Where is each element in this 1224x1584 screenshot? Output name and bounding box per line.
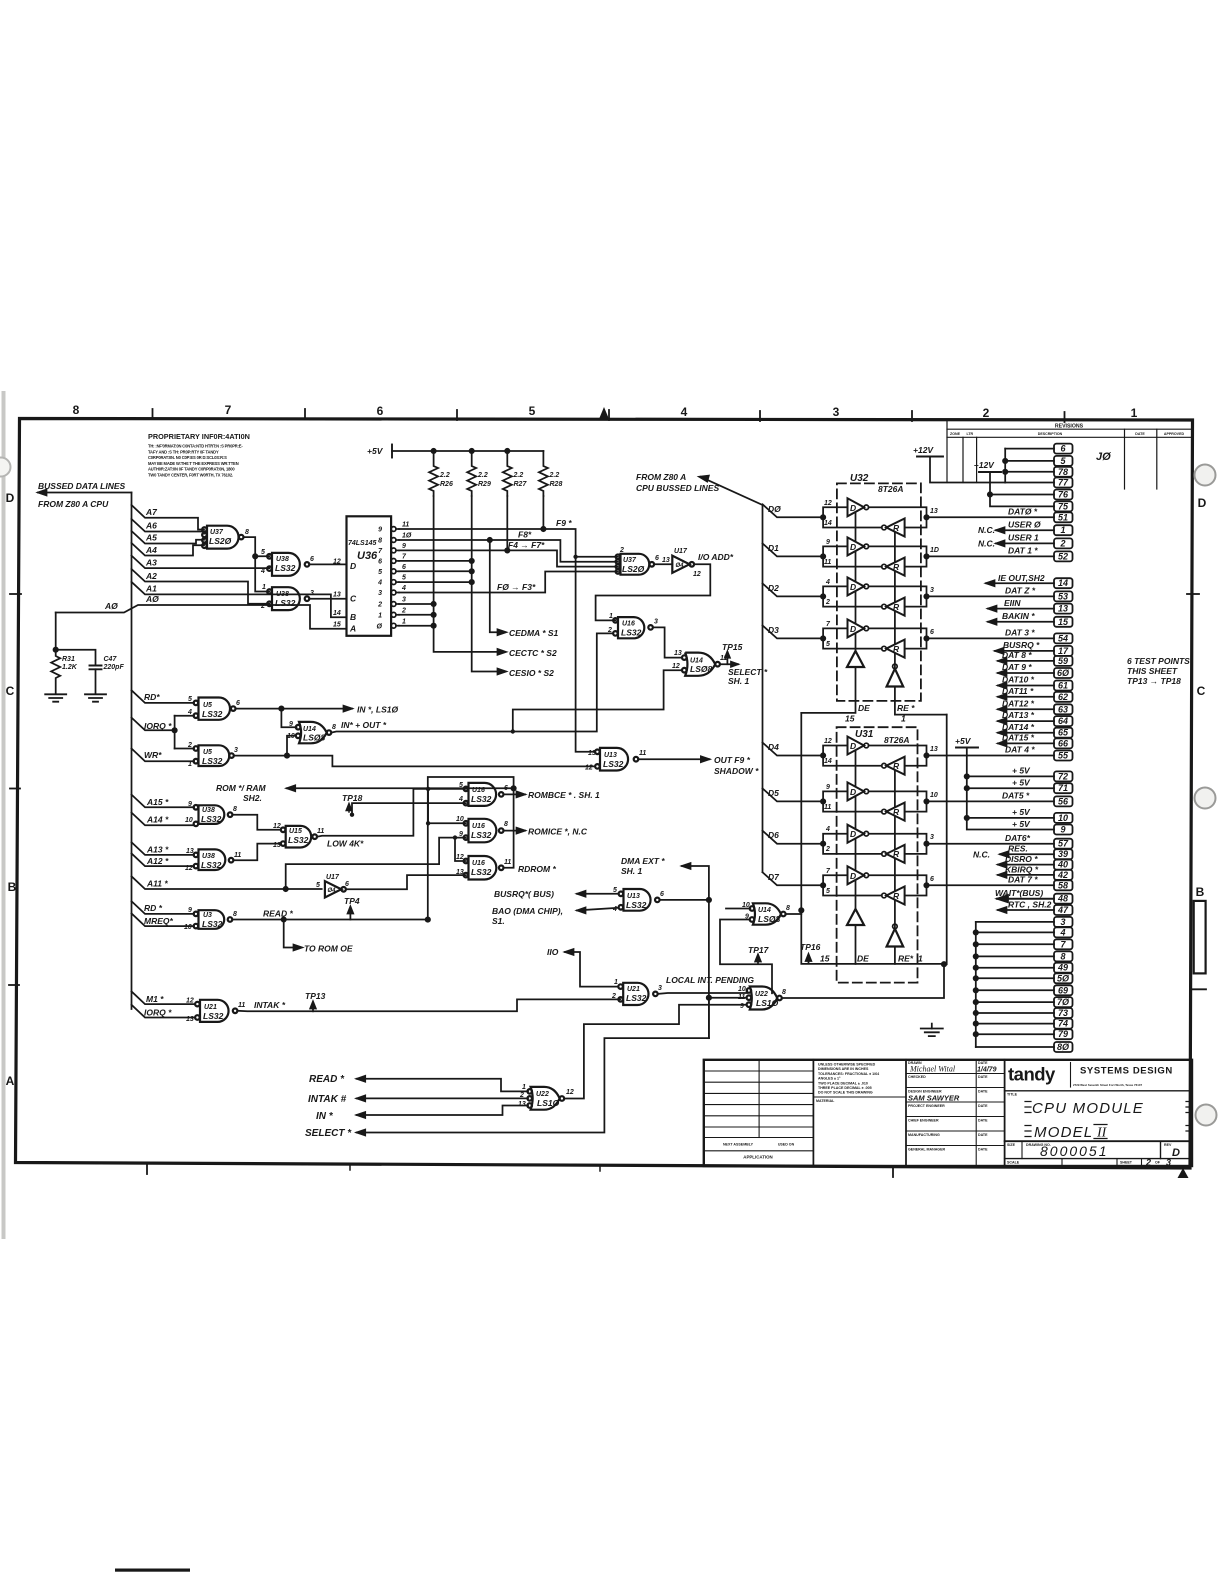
svg-text:FROM Z80 A: FROM Z80 A <box>636 472 686 482</box>
node read riser tap <box>426 787 430 791</box>
test point TP17 <box>720 920 772 994</box>
svg-text:6: 6 <box>655 555 659 562</box>
svg-text:OF: OF <box>1155 1161 1161 1165</box>
svg-text:1/4/79: 1/4/79 <box>977 1067 997 1074</box>
connector J0 pin 51 <box>1054 512 1073 522</box>
svg-text:ROMBCE * . SH. 1: ROMBCE * . SH. 1 <box>528 790 600 800</box>
svg-text:+5V: +5V <box>955 736 972 746</box>
svg-text:BUSRQ *: BUSRQ * <box>1003 640 1040 650</box>
connector J0 pin 58 <box>1054 880 1073 890</box>
node R26 taps <box>431 602 435 606</box>
gate U38d <box>199 849 226 870</box>
svg-text:9: 9 <box>826 784 830 791</box>
svg-text:DAT5 *: DAT5 * <box>1002 791 1030 801</box>
svg-text:7: 7 <box>225 403 232 417</box>
node A11 branch <box>284 887 288 891</box>
svg-text:LS32: LS32 <box>202 756 223 766</box>
svg-text:1: 1 <box>402 618 406 625</box>
resistor R28 <box>539 451 548 496</box>
wire RD <box>132 901 195 914</box>
svg-text:RES.: RES. <box>1008 844 1028 854</box>
svg-text:R: R <box>893 761 900 771</box>
svg-text:5: 5 <box>1060 456 1066 466</box>
wire U38d out to U15 pin13 <box>233 844 280 861</box>
svg-text:13: 13 <box>930 508 938 515</box>
node R27 tap <box>505 548 509 552</box>
gate U14b LS08 (IN+OUT) <box>296 722 332 743</box>
wire IN*,LS10 <box>236 706 353 728</box>
top zone tick 2/1 <box>1064 412 1066 422</box>
svg-text:U13: U13 <box>627 893 640 900</box>
svg-text:EIIN: EIIN <box>1004 598 1021 608</box>
parts list grid <box>704 1071 814 1151</box>
svg-text:2: 2 <box>611 993 616 1000</box>
svg-text:5: 5 <box>529 404 536 418</box>
connector J0 pin 6 <box>1054 444 1073 454</box>
svg-text:CEDMA * S1: CEDMA * S1 <box>509 628 559 638</box>
svg-text:3: 3 <box>930 587 934 594</box>
svg-text:62: 62 <box>1058 692 1068 702</box>
bottom tick 3 <box>599 1166 601 1172</box>
svg-text:57: 57 <box>1058 839 1069 849</box>
svg-text:6: 6 <box>236 700 240 707</box>
gate U14 or-shape <box>685 653 715 676</box>
svg-text:F9 *: F9 * <box>556 518 572 528</box>
svg-text:11: 11 <box>234 852 241 859</box>
svg-text:APPLICATION: APPLICATION <box>743 1155 772 1160</box>
svg-text:11: 11 <box>317 828 324 835</box>
svg-text:9: 9 <box>402 543 406 550</box>
svg-text:+ 5V: + 5V <box>1012 766 1031 776</box>
svg-text:SH. 1: SH. 1 <box>728 676 750 686</box>
svg-text:U5: U5 <box>203 702 212 709</box>
connector J0 pin 13 <box>1054 604 1073 614</box>
svg-text:2: 2 <box>187 742 192 749</box>
bottom center tick <box>146 1164 148 1175</box>
node rail R27 <box>505 449 509 453</box>
svg-text:C0RP0RAT:0N. N0 C0P:ES 0R D:SC: C0RP0RAT:0N. N0 C0P:ES 0R D:SCL0S:R:S <box>148 455 227 460</box>
svg-text:7: 7 <box>378 548 383 555</box>
svg-text:U5: U5 <box>203 749 212 756</box>
svg-text:63: 63 <box>1058 704 1068 714</box>
svg-text:73: 73 <box>1058 1008 1068 1018</box>
svg-text:U31: U31 <box>855 729 874 740</box>
svg-text:SYSTEMS DESIGN: SYSTEMS DESIGN <box>1080 1066 1173 1077</box>
svg-text:D: D <box>1172 1147 1180 1159</box>
svg-text:1: 1 <box>188 761 192 768</box>
svg-text:5: 5 <box>378 569 382 576</box>
svg-text:9: 9 <box>378 527 382 534</box>
right hole punch bottom <box>1196 1105 1217 1126</box>
svg-text:+ 5V: + 5V <box>1012 819 1031 829</box>
svg-text:–12V: –12V <box>974 460 995 470</box>
wire EIIN <box>988 608 1054 610</box>
svg-text:12: 12 <box>672 663 680 670</box>
wire U14c out to DE column <box>726 909 801 915</box>
svg-text:3: 3 <box>234 747 238 754</box>
test point TP18 <box>346 804 352 813</box>
svg-text:9: 9 <box>289 721 293 728</box>
svg-text:1: 1 <box>614 979 618 986</box>
wire DAT10 <box>998 685 1054 687</box>
svg-text:B: B <box>350 612 356 622</box>
svg-text:IORQ *: IORQ * <box>144 721 172 731</box>
RE line U31 <box>894 763 896 964</box>
wire U37b to U17 <box>654 563 672 565</box>
svg-text:SIZE: SIZE <box>1007 1143 1016 1147</box>
svg-text:10: 10 <box>738 986 746 993</box>
svg-text:LS32: LS32 <box>471 794 492 804</box>
scan left edge shadow <box>2 393 6 1237</box>
svg-text:14: 14 <box>824 520 832 527</box>
gate U16c <box>469 856 497 880</box>
svg-text:D3: D3 <box>768 625 779 635</box>
wire BUSRQ arrow <box>577 891 618 897</box>
svg-text:6: 6 <box>504 785 508 792</box>
svg-text:7: 7 <box>402 554 407 561</box>
svg-text:READ *: READ * <box>309 1074 345 1085</box>
DE enable triangle U32 <box>847 651 864 667</box>
svg-text:TH: :NF'0RMAT:0N C0NTA:NTD HTR: TH: :NF'0RMAT:0N C0NTA:NTD HTRT:N :S PR0… <box>148 444 243 449</box>
gate U37 <box>207 526 239 549</box>
svg-text:11: 11 <box>504 859 511 866</box>
inverter U17 buffer <box>672 556 689 573</box>
svg-text:4: 4 <box>1059 927 1065 937</box>
svg-text:LS32: LS32 <box>626 993 647 1003</box>
power +5V bar <box>391 445 393 458</box>
svg-text:D: D <box>850 542 856 552</box>
gate U15 <box>286 826 312 848</box>
svg-text:4: 4 <box>825 579 830 586</box>
connector J0 pin 70 <box>1054 997 1073 1007</box>
capacitor C47 <box>90 666 102 670</box>
svg-text:DAT 8 *: DAT 8 * <box>1002 650 1032 660</box>
svg-text:TOLERANCES: FRACTIONAL ± 1/64: TOLERANCES: FRACTIONAL ± 1/64 <box>818 1072 879 1076</box>
wire U22a out to RE column <box>782 962 946 998</box>
wire OUT F9 shadow arrow <box>638 756 709 762</box>
wire A7 <box>132 505 205 530</box>
svg-text:DE: DE <box>858 703 870 713</box>
svg-text:USER Ø: USER Ø <box>1008 520 1041 530</box>
wire M1 <box>132 991 195 1004</box>
svg-text:INTAK *: INTAK * <box>254 1000 286 1010</box>
svg-text:76: 76 <box>1058 490 1069 500</box>
wire riser to pin10 <box>428 789 466 823</box>
wire U36 row 5 <box>399 581 472 583</box>
svg-text:77: 77 <box>1058 478 1069 488</box>
wire bussed data lines arrow <box>38 492 132 494</box>
wire U36 row 6 <box>399 570 472 572</box>
svg-text:3: 3 <box>310 590 314 597</box>
svg-text:2: 2 <box>1145 1158 1151 1168</box>
svg-text:U15: U15 <box>289 828 302 835</box>
svg-text:LS32: LS32 <box>275 563 296 573</box>
svg-text:3: 3 <box>378 590 382 597</box>
wire ROMBCE arrow <box>504 792 526 798</box>
node rail R29 <box>470 449 474 453</box>
svg-text:2: 2 <box>619 547 624 554</box>
svg-text:5Ø: 5Ø <box>1057 973 1070 983</box>
connector J0 pin 42 <box>1054 870 1073 880</box>
svg-text:R: R <box>893 523 900 533</box>
dashed box U31 <box>837 727 918 982</box>
svg-text:LS32: LS32 <box>288 835 309 845</box>
svg-text:APPROVED: APPROVED <box>1164 432 1185 436</box>
wire R27 column <box>506 496 508 550</box>
wire I/O ADD* to U16 pin1 <box>596 564 711 620</box>
connector J0 pin 9 <box>1054 825 1073 835</box>
connector J0 pin 77 <box>1054 478 1073 488</box>
zone numbers <box>6 403 1207 1088</box>
gate U16 <box>618 617 644 638</box>
DE line U32 <box>801 505 855 713</box>
svg-text:11: 11 <box>824 804 831 811</box>
svg-text:A5: A5 <box>145 533 157 543</box>
svg-text:ZONE: ZONE <box>950 432 961 436</box>
svg-text:7Ø: 7Ø <box>1057 997 1070 1007</box>
svg-text:SAM SAWYER: SAM SAWYER <box>908 1094 960 1103</box>
connector J0 pin 2 <box>1054 538 1073 548</box>
wire TP18 pin4 line <box>352 803 466 815</box>
svg-text:D7: D7 <box>768 872 780 882</box>
gate U21a <box>200 1000 229 1022</box>
resistor R27 <box>503 451 512 496</box>
wire U36 row 3 <box>399 603 434 605</box>
left zone tick B/A <box>9 984 19 986</box>
svg-text:R31: R31 <box>62 656 75 663</box>
wire CECTC arrow <box>498 649 507 655</box>
wire DAT12 <box>998 708 1054 710</box>
wire to C47 <box>56 650 96 665</box>
svg-text:3: 3 <box>654 619 658 626</box>
connector J0 pin 10 <box>1054 813 1073 823</box>
svg-text:TP13 → TP18: TP13 → TP18 <box>1127 676 1181 686</box>
svg-text:SHEET: SHEET <box>1120 1161 1133 1165</box>
test point TP15 select <box>720 652 738 667</box>
wire DAT15 <box>998 742 1054 744</box>
svg-text:4: 4 <box>681 405 688 419</box>
svg-text:DESCRIPTION: DESCRIPTION <box>1038 432 1063 436</box>
left hole punch (partial) <box>0 458 11 477</box>
svg-text:5: 5 <box>402 575 406 582</box>
svg-text:D: D <box>850 871 856 881</box>
wire IN ref <box>357 1106 528 1116</box>
svg-text:LS2Ø: LS2Ø <box>209 536 232 546</box>
svg-text:LS32: LS32 <box>201 860 222 870</box>
wire U16 out to U14 pin13 <box>653 627 682 657</box>
wire INTAK row <box>237 999 620 1011</box>
wire U16c pin12 from pin9 row <box>455 838 466 861</box>
svg-text:4: 4 <box>825 826 830 833</box>
svg-text:9: 9 <box>745 914 749 921</box>
wire READ* ref <box>357 1079 528 1092</box>
svg-text:IIO: IIO <box>547 947 559 957</box>
svg-text:D4: D4 <box>768 742 779 752</box>
connector J0 pin 40 <box>1054 860 1073 870</box>
svg-text:DATE: DATE <box>978 1075 988 1079</box>
wire select to U22a pin11 <box>708 1037 710 1039</box>
svg-text:6: 6 <box>378 559 382 566</box>
svg-text:15: 15 <box>333 622 341 629</box>
svg-text:N.C.: N.C. <box>973 850 990 860</box>
svg-text:LSØ8: LSØ8 <box>303 733 325 743</box>
connector J0 pin 72 <box>1054 771 1073 781</box>
svg-text:+ 5V: + 5V <box>1012 778 1031 788</box>
svg-text:THIS SHEET: THIS SHEET <box>1127 666 1178 676</box>
svg-text:9: 9 <box>826 539 830 546</box>
svg-text:TP13: TP13 <box>305 991 326 1001</box>
svg-text:R: R <box>893 644 900 654</box>
svg-text:2: 2 <box>260 603 265 610</box>
svg-text:TW0 TANDY CENTER, F0RT W0RTH,: TW0 TANDY CENTER, F0RT W0RTH, TX 76102. <box>148 473 233 478</box>
svg-text:IORQ *: IORQ * <box>144 1008 172 1018</box>
wire RDROM riser <box>428 777 514 920</box>
wire U36 row 7 <box>399 560 472 562</box>
svg-text:D: D <box>850 624 856 634</box>
connector J0 pin 56 <box>1054 796 1073 806</box>
svg-text:59: 59 <box>1058 656 1068 666</box>
svg-text:8T26A: 8T26A <box>884 735 910 745</box>
svg-text:6: 6 <box>377 404 384 418</box>
wire READ* row <box>232 907 430 951</box>
svg-text:THREE PLACE DECIMAL ± .005: THREE PLACE DECIMAL ± .005 <box>818 1086 872 1090</box>
svg-text:8: 8 <box>786 905 790 912</box>
svg-text:DATE: DATE <box>978 1148 988 1152</box>
wire R28 column <box>542 496 544 529</box>
top zone tick 8/7 <box>152 409 154 419</box>
connector J0 pin 52 <box>1054 551 1073 561</box>
svg-text:OUT F9 *: OUT F9 * <box>714 755 751 765</box>
svg-text:1: 1 <box>262 584 266 591</box>
svg-text:9: 9 <box>459 831 463 838</box>
wire A12 <box>132 853 195 866</box>
connector J0 pin 69 <box>1054 985 1073 995</box>
svg-text:12: 12 <box>333 559 341 566</box>
svg-text:8000051: 8000051 <box>1040 1143 1109 1159</box>
gate U21b <box>623 983 648 1005</box>
ground below C47 <box>85 694 106 701</box>
svg-text:4: 4 <box>187 709 192 716</box>
border frame <box>16 419 1193 1169</box>
svg-text:7: 7 <box>826 621 831 628</box>
svg-text:5: 5 <box>188 696 192 703</box>
svg-text:R28: R28 <box>550 481 563 488</box>
wire U5b out row to U13a pin12 <box>234 736 595 767</box>
svg-text:DAT 3 *: DAT 3 * <box>1005 628 1035 638</box>
resistor R26 <box>429 451 438 496</box>
svg-text:75: 75 <box>1058 501 1069 511</box>
svg-text:FØ → F3*: FØ → F3* <box>497 582 536 592</box>
connector J0 pin 65 <box>1054 728 1073 738</box>
wire F0-F3 <box>399 572 618 593</box>
gate U38b <box>272 587 300 610</box>
svg-text:8: 8 <box>782 989 786 996</box>
connector J0 pin 8 <box>1054 951 1073 961</box>
connector J0 pin 66 <box>1054 738 1073 748</box>
svg-text:LS2Ø: LS2Ø <box>622 564 645 574</box>
svg-text:A14 *: A14 * <box>146 815 169 825</box>
svg-text:DAT6*: DAT6* <box>1005 833 1031 843</box>
svg-text:D: D <box>850 741 856 751</box>
connector J0 pin 57 <box>1054 839 1073 849</box>
wire U36 row 2 <box>399 614 434 616</box>
connector J0 pin 3 <box>1054 917 1073 927</box>
svg-text:N.C.: N.C. <box>978 539 995 549</box>
svg-text:BAKIN *: BAKIN * <box>1002 611 1035 621</box>
svg-text:N.C.: N.C. <box>978 525 995 535</box>
svg-text:DAT Z *: DAT Z * <box>1005 586 1036 596</box>
svg-text:12: 12 <box>566 1089 574 1096</box>
left zone tick D/C <box>10 593 21 595</box>
svg-text:ANGLES ± 1°: ANGLES ± 1° <box>818 1077 841 1081</box>
svg-text:8Ø: 8Ø <box>1057 1042 1070 1052</box>
svg-text:1: 1 <box>901 714 906 724</box>
svg-text:5: 5 <box>826 888 830 895</box>
svg-text:A: A <box>349 624 356 634</box>
wire A14 <box>132 813 195 826</box>
wire IE OUT <box>986 582 1054 584</box>
svg-text:USED ON: USED ON <box>778 1143 795 1147</box>
bottom edge mark <box>115 1569 190 1572</box>
svg-text:TP15: TP15 <box>722 642 743 652</box>
svg-text:3: 3 <box>930 834 934 841</box>
svg-text:LOW 4K*: LOW 4K* <box>327 839 364 849</box>
svg-text:A: A <box>6 1074 15 1088</box>
svg-text:A3: A3 <box>145 558 157 568</box>
connector J0 pin 63 <box>1054 704 1073 714</box>
svg-text:A13 *: A13 * <box>146 845 169 855</box>
svg-text:2.2: 2.2 <box>477 472 488 479</box>
gate U3a <box>199 910 225 929</box>
svg-text:17: 17 <box>1058 646 1069 656</box>
wire DAT14 <box>998 732 1054 734</box>
svg-text:PROPRIETARY INF0R:4ATI0N: PROPRIETARY INF0R:4ATI0N <box>148 432 250 441</box>
wire DAT13 <box>998 720 1054 722</box>
wire BUSRQ <box>995 650 1054 652</box>
ground lead <box>931 1024 933 1029</box>
wire A11 riser to pin9 <box>286 838 466 889</box>
RE enable triangle U32 <box>887 664 904 686</box>
svg-text:NEXT ASSEMBLY: NEXT ASSEMBLY <box>723 1143 754 1147</box>
svg-text:JØ: JØ <box>1096 451 1111 463</box>
wire WR* <box>132 749 195 762</box>
svg-text:2.2: 2.2 <box>549 472 560 479</box>
svg-text:49: 49 <box>1057 963 1068 973</box>
wire SELECT ref <box>357 1038 709 1132</box>
svg-text:+5V: +5V <box>367 446 384 456</box>
svg-text:DAT 1 *: DAT 1 * <box>1008 546 1038 556</box>
svg-text:UNLESS OTHERWISE SPECIFIED: UNLESS OTHERWISE SPECIFIED <box>818 1063 876 1067</box>
wire RES NC <box>1000 853 1054 855</box>
gate U16b <box>469 819 497 843</box>
top zone tick 4/3 <box>759 411 761 421</box>
right hole punch middle <box>1195 788 1216 809</box>
svg-text:Michael Wital: Michael Wital <box>909 1065 956 1074</box>
svg-text:RD*: RD* <box>144 692 160 702</box>
svg-text:MANUFACTURING: MANUFACTURING <box>908 1133 940 1137</box>
wire BAKIN <box>988 621 1054 623</box>
svg-text:12: 12 <box>824 738 832 745</box>
svg-text:Ø4: Ø4 <box>328 888 337 894</box>
svg-text:12: 12 <box>186 998 194 1005</box>
top zone tick 6/5 <box>456 410 458 420</box>
svg-text:58: 58 <box>1058 880 1068 890</box>
svg-text:CECTC * S2: CECTC * S2 <box>509 648 557 658</box>
svg-text:R26: R26 <box>440 481 453 488</box>
signature rows <box>906 1074 1005 1146</box>
svg-text:C: C <box>350 594 357 604</box>
wire F4-F7 <box>399 550 618 566</box>
